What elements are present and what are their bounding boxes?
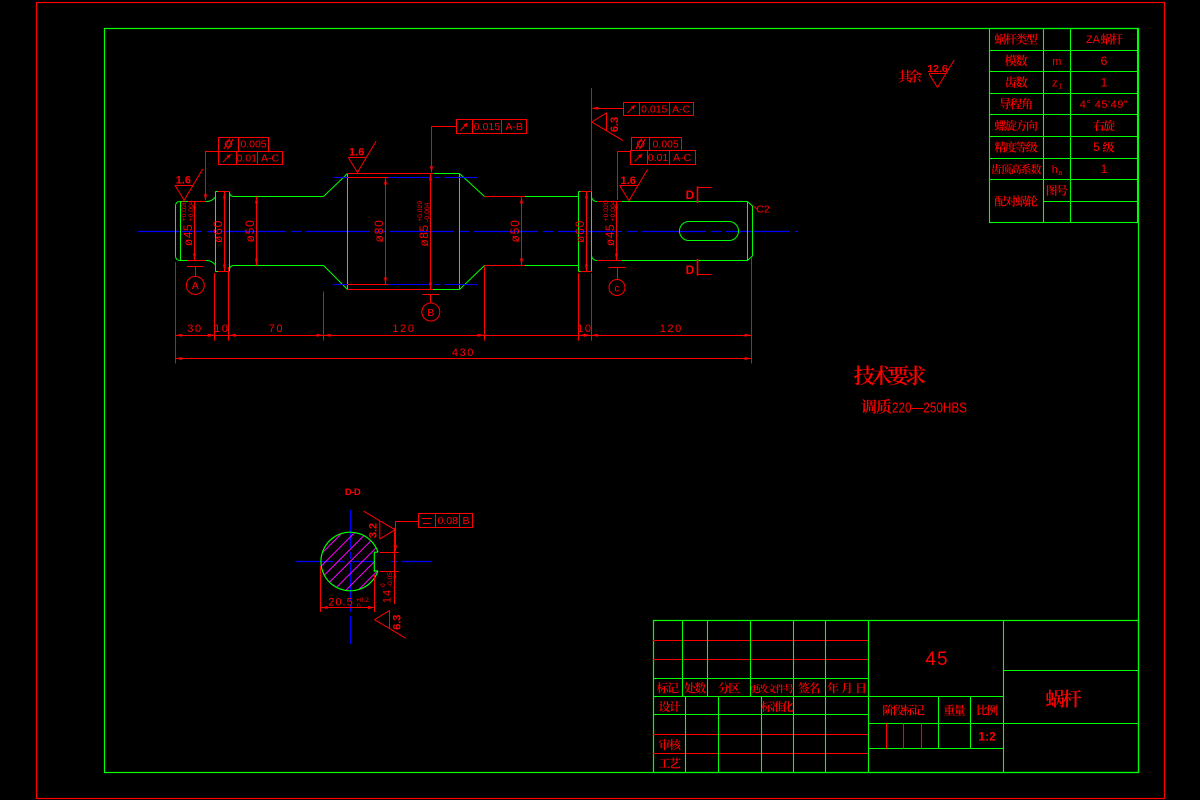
leader for 0.08 B frame xyxy=(396,521,419,523)
parameter table row texts xyxy=(995,33,1038,44)
svg-text:A-B: A-B xyxy=(505,121,523,133)
svg-text:+0.020: +0.020 xyxy=(603,200,610,221)
svg-text:6: 6 xyxy=(1101,54,1108,68)
dim 20.5 keyway depth xyxy=(320,566,322,612)
svg-text:430: 430 xyxy=(452,347,475,359)
dimension o60 right collar xyxy=(586,192,588,272)
svg-text:0: 0 xyxy=(357,603,361,610)
extension lines for length dimensions xyxy=(175,262,177,341)
section shaft circle xyxy=(321,532,378,591)
svg-text:0.01: 0.01 xyxy=(648,152,669,164)
svg-text:ø45: ø45 xyxy=(181,224,195,246)
svg-text:+0.029: +0.029 xyxy=(417,201,424,222)
svg-text:A: A xyxy=(192,280,199,292)
svg-text:1: 1 xyxy=(1101,162,1108,176)
svg-text:A-C: A-C xyxy=(261,152,280,164)
surface note qiyu 12.6 top right xyxy=(899,70,922,83)
svg-text:10: 10 xyxy=(214,323,229,335)
worm right cone xyxy=(460,174,485,290)
dim 120 worm xyxy=(324,334,331,337)
frame 0.015 A-C xyxy=(624,103,640,116)
svg-text:A-C: A-C xyxy=(673,152,692,164)
datum A xyxy=(187,266,204,268)
stage marking red dividers xyxy=(886,723,888,748)
svg-text:30: 30 xyxy=(187,323,202,335)
svg-text:ZA: ZA xyxy=(1086,34,1101,46)
svg-text:45: 45 xyxy=(925,649,948,670)
frame cyl 0.005 right xyxy=(632,138,650,151)
dimension o50 right section xyxy=(521,197,523,266)
leader for left tolerance frames xyxy=(206,151,219,153)
svg-text:D: D xyxy=(686,263,695,277)
datum C xyxy=(609,267,626,269)
roughness 1.6 right journal xyxy=(620,185,638,187)
svg-text:3.2: 3.2 xyxy=(368,523,380,538)
worm body xyxy=(348,174,460,290)
svg-text:5: 5 xyxy=(1093,140,1100,154)
svg-text:m: m xyxy=(1052,56,1061,68)
shaft left collar o60 xyxy=(216,192,230,272)
dimension o60 left collar xyxy=(224,192,226,272)
svg-text:-0.05: -0.05 xyxy=(387,572,394,587)
title block left grid xyxy=(653,640,869,642)
chamfer label C2 xyxy=(753,205,758,209)
svg-text:1: 1 xyxy=(1058,83,1062,90)
svg-text:0: 0 xyxy=(380,583,387,587)
svg-text:c: c xyxy=(614,282,619,294)
technical requirements text xyxy=(861,399,891,414)
title block outer xyxy=(654,621,1139,773)
svg-text:1.6: 1.6 xyxy=(176,174,191,186)
svg-text:10: 10 xyxy=(577,323,592,335)
svg-text:ø80: ø80 xyxy=(372,219,386,242)
worm left cone xyxy=(324,174,348,290)
dim 10 right xyxy=(579,334,586,337)
frame runout 0.01 A-C left xyxy=(219,152,237,165)
svg-text:220—250HBS: 220—250HBS xyxy=(892,401,967,417)
svg-text:120: 120 xyxy=(660,323,683,335)
part name xyxy=(1046,690,1081,708)
extension line from right collar up xyxy=(591,88,593,191)
svg-text:a: a xyxy=(1058,170,1062,177)
svg-text:0.005: 0.005 xyxy=(652,139,678,151)
svg-text:0.015: 0.015 xyxy=(474,121,500,133)
svg-text:ø45: ø45 xyxy=(603,224,617,246)
svg-text:0.01: 0.01 xyxy=(237,152,258,164)
leader for 0.015 A-C frame xyxy=(593,108,624,110)
svg-text:B: B xyxy=(462,515,469,527)
roughness 1.6 worm xyxy=(348,157,366,159)
svg-text:C2: C2 xyxy=(756,204,770,216)
keyway on right journal xyxy=(680,222,739,241)
svg-text:ø60: ø60 xyxy=(573,220,587,243)
parameter table grid xyxy=(990,29,1138,223)
leader for right tolerance frames xyxy=(617,151,631,153)
svg-text:6.3: 6.3 xyxy=(609,117,621,132)
dim 120 right journal xyxy=(591,334,598,337)
frame cyl 0.005 left xyxy=(219,138,239,152)
svg-text:70: 70 xyxy=(269,323,284,335)
shaft left journal o45 xyxy=(176,197,216,265)
svg-text:z: z xyxy=(1052,77,1058,89)
svg-text:14: 14 xyxy=(382,589,394,603)
section keyway xyxy=(374,552,378,571)
shaft section o50 right xyxy=(525,197,579,266)
svg-text:120: 120 xyxy=(392,323,415,335)
svg-text:+0.020: +0.020 xyxy=(181,200,188,221)
main centerline xyxy=(138,231,798,233)
svg-text:+0.004: +0.004 xyxy=(610,200,617,221)
worm tip reference lines o80 xyxy=(333,177,348,179)
datum B xyxy=(423,294,440,296)
dim 30 xyxy=(175,334,182,337)
shaft right collar o60 xyxy=(579,192,592,272)
svg-text:ø50: ø50 xyxy=(243,219,257,242)
section keyway extension lines xyxy=(380,552,399,554)
title block header texts xyxy=(657,682,679,693)
length dimension chain line xyxy=(175,335,751,337)
svg-text:0.08: 0.08 xyxy=(437,515,458,527)
frame 0.015 A-B xyxy=(457,120,473,134)
dim 70 xyxy=(229,334,236,337)
section centerlines xyxy=(296,561,433,563)
section cut D upper xyxy=(698,187,712,189)
svg-text:20.5: 20.5 xyxy=(328,597,353,609)
dim 14 keyway width xyxy=(394,528,396,604)
technical requirements title xyxy=(854,365,925,385)
svg-text:D-D: D-D xyxy=(345,487,361,498)
roughness 3.2 keyway side xyxy=(364,511,395,539)
svg-text:6.3: 6.3 xyxy=(392,615,404,630)
svg-text:1.6: 1.6 xyxy=(349,147,364,159)
svg-text:h: h xyxy=(1052,164,1058,176)
svg-text:D: D xyxy=(686,188,695,202)
dimension o85 worm od xyxy=(430,174,432,290)
frame 0.08 B xyxy=(419,514,436,528)
section cut D lower xyxy=(698,274,712,276)
svg-text:-0.004: -0.004 xyxy=(424,202,431,221)
roughness 1.6 left journal xyxy=(175,185,193,187)
svg-text:ø50: ø50 xyxy=(508,219,522,242)
red extension overlays on outline xyxy=(188,201,206,203)
dimension o80 worm reference xyxy=(385,178,387,285)
svg-text:1:2: 1:2 xyxy=(978,730,996,744)
svg-text:B: B xyxy=(427,307,434,319)
svg-text:+0.004: +0.004 xyxy=(188,200,195,221)
svg-text:1: 1 xyxy=(1101,75,1108,89)
svg-text:ø60: ø60 xyxy=(211,220,225,243)
dimension o45 right journal xyxy=(616,202,618,261)
svg-text:0.005: 0.005 xyxy=(240,139,266,151)
roughness 6.3 keyway bottom xyxy=(389,610,391,628)
svg-text:4° 45'49": 4° 45'49" xyxy=(1080,99,1129,111)
leader for 0.015 A-B frame xyxy=(432,126,457,128)
svg-text:A-C: A-C xyxy=(672,103,691,115)
dimension o45 left journal xyxy=(194,202,196,261)
title block middle section xyxy=(868,621,870,773)
title block right divider xyxy=(1004,670,1139,672)
svg-text:0.015: 0.015 xyxy=(641,103,667,115)
roughness 6.3 right collar face xyxy=(606,113,608,131)
shaft section o50 left xyxy=(230,193,324,269)
shaft right journal o45 with chamfered end xyxy=(592,197,753,261)
dim 10 left xyxy=(208,334,215,337)
svg-text:ø85: ø85 xyxy=(417,224,431,246)
svg-text:1.6: 1.6 xyxy=(621,175,636,187)
dimension o50 left section xyxy=(256,197,258,266)
overall dim 430 xyxy=(175,358,751,360)
frame runout 0.01 A-C right xyxy=(631,151,648,165)
